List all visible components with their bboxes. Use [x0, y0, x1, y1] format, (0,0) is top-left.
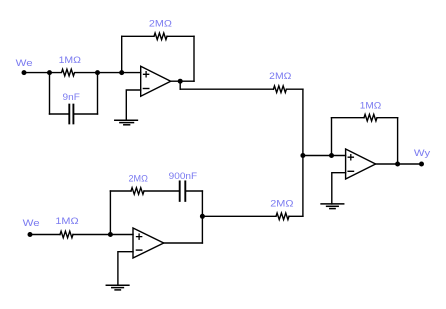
wire U2 feedback capacitor to right vertical: [186, 190, 202, 192]
svg-text:900nF: 900nF: [169, 171, 198, 182]
svg-text:We: We: [16, 58, 33, 69]
wire summing vertical: [302, 89, 304, 216]
junction G (U2 feedback tap): [108, 232, 113, 237]
wire capacitor branch up to junction B: [97, 73, 99, 114]
wire U1 feedback top right: [167, 35, 194, 37]
wire U2 feedback top left: [110, 190, 131, 192]
node Wy (output terminal): [419, 162, 424, 167]
wire U1 output to coupling resistor: [180, 88, 273, 90]
junction I (U3 output node): [395, 162, 400, 167]
wire U2 output right: [164, 242, 203, 244]
junction H (U2 output node): [200, 214, 205, 219]
resistor 1M ohm (top input): [50, 69, 98, 76]
wire U1 output down jog: [179, 81, 181, 89]
wire junction G to U2 plus input: [110, 234, 133, 236]
junction C (feedback tap op-amp U1): [119, 70, 124, 75]
junction D (U1 output): [178, 79, 183, 84]
resistor 2M ohm (U2 feedback): [131, 188, 144, 195]
junction E (summing node): [300, 153, 305, 158]
wire capacitor branch bottom right: [74, 113, 97, 115]
resistor 2M ohm (bottom coupling): [276, 213, 289, 220]
wire U1 output to node D: [171, 80, 181, 82]
wire U2 feedback right vertical: [201, 191, 203, 216]
svg-text:2MΩ: 2MΩ: [129, 173, 148, 184]
node We (bottom input terminal): [28, 232, 33, 237]
wire U1 feedback right vertical: [193, 36, 195, 81]
ground (U2): [106, 285, 129, 290]
wire U1 feedback to output node: [180, 80, 194, 82]
wire U2 output up to node H: [201, 216, 203, 243]
wire U1 feedback left vertical: [121, 36, 123, 72]
svg-text:2MΩ: 2MΩ: [269, 71, 291, 82]
capacitor 9nF: [69, 105, 73, 124]
wire coupling resistor to summing vertical: [286, 88, 303, 90]
svg-text:1MΩ: 1MΩ: [360, 100, 382, 111]
svg-text:Wy: Wy: [414, 148, 430, 159]
svg-text:2MΩ: 2MΩ: [149, 19, 172, 30]
wire U3 feedback top right: [377, 117, 398, 119]
op-amp U2: [133, 228, 164, 258]
wire U2 minus input: [118, 252, 133, 286]
wire U1 minus input: [126, 90, 140, 120]
wire capacitor branch bottom left: [50, 113, 69, 115]
wire bottom coupling resistor to summing vertical: [289, 215, 303, 217]
svg-text:9nF: 9nF: [63, 92, 81, 103]
wire U2 feedback resistor to capacitor: [144, 190, 179, 192]
wire U1 feedback top left: [122, 35, 154, 37]
ground (U1): [115, 120, 138, 125]
op-amp U1: [141, 66, 171, 96]
resistor 1M ohm (U3 feedback): [364, 114, 377, 121]
wire summing node to U3 plus input: [303, 155, 346, 157]
resistor 2M ohm (top coupling): [273, 86, 286, 93]
resistor 1M ohm (bottom input): [60, 231, 73, 238]
junction B (R-C parallel right): [95, 70, 100, 75]
svg-text:1MΩ: 1MΩ: [59, 55, 81, 66]
wire resistor to junction G: [73, 234, 110, 236]
svg-text:2MΩ: 2MΩ: [270, 199, 293, 210]
wire U3 minus input: [332, 173, 346, 204]
svg-text:1MΩ: 1MΩ: [55, 216, 78, 227]
wire U3 output: [376, 163, 398, 165]
wire U3 feedback right vertical: [397, 118, 399, 164]
wire We terminal to junction A: [24, 72, 50, 74]
junction A (R-C parallel left): [47, 70, 52, 75]
wire We bottom terminal to resistor: [30, 234, 60, 236]
wire junction B to feedback tap: [98, 72, 122, 74]
wire U3 feedback left vertical: [331, 118, 333, 156]
node We (top input terminal): [22, 70, 27, 75]
wire U3 output to Wy terminal: [398, 163, 422, 165]
wire feedback tap to U1 plus input: [122, 72, 141, 74]
resistor 2M ohm (U1 feedback): [154, 33, 167, 40]
wire junction A down to capacitor branch: [49, 73, 51, 114]
op-amp U3: [346, 149, 376, 179]
ground (U3): [321, 204, 344, 209]
capacitor 900nF (U2 feedback): [180, 181, 186, 201]
junction F (U3 feedback tap): [329, 153, 334, 158]
wire node H to bottom coupling resistor: [202, 215, 276, 217]
wire U2 feedback left vertical: [109, 191, 111, 235]
svg-text:We: We: [23, 218, 40, 229]
wire U3 feedback top left: [332, 117, 365, 119]
